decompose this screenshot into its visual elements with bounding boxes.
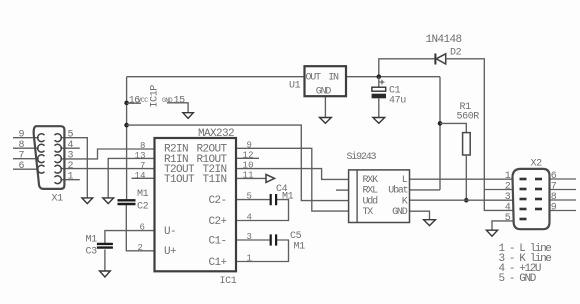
- ground G2: [103, 198, 114, 204]
- wire X1 pin9 stub: [13, 137, 39, 139]
- svg-text:9: 9: [19, 130, 25, 141]
- svg-text:TX: TX: [363, 207, 374, 218]
- svg-text:2: 2: [505, 181, 511, 192]
- svg-text:5 - GND: 5 - GND: [499, 273, 537, 285]
- capacitor C5 plates: [271, 234, 276, 245]
- svg-text:7: 7: [551, 181, 557, 192]
- svg-text:6: 6: [140, 223, 146, 233]
- svg-text:X2: X2: [531, 159, 543, 170]
- wire +5V to Si9243 Udd: [127, 125, 349, 201]
- wire diode anode to X2 pin4: [446, 59, 513, 211]
- wire R2OUT to Si9243 TX: [236, 148, 349, 211]
- node VCC pin16 junction: [124, 101, 129, 106]
- wire C5 to C1+ pin1: [236, 240, 289, 262]
- transceiver Si9243 box: [349, 170, 410, 223]
- wire X1 pin2 to T2OUT: [60, 168, 154, 170]
- svg-text:RXL: RXL: [363, 186, 379, 197]
- wire T2IN to Si9243 RXK: [236, 169, 349, 180]
- wire X1 pin7 stub: [13, 158, 39, 160]
- wire pin16 VCC stub: [127, 102, 141, 104]
- X2 pin2 dash: [520, 188, 527, 191]
- svg-text:4: 4: [505, 202, 511, 213]
- wire X1 pin8 stub: [13, 147, 39, 149]
- svg-text:M1: M1: [282, 192, 294, 203]
- svg-text:1: 1: [68, 172, 74, 183]
- wire C4 to C2+ pin4: [236, 200, 289, 221]
- svg-text:X1: X1: [52, 194, 64, 205]
- wire X1 pin1 stub: [60, 179, 80, 181]
- wire diode cathode to junction: [379, 59, 435, 77]
- wire C1- pin3 to C5: [236, 239, 270, 241]
- svg-text:C2+: C2+: [208, 216, 226, 228]
- X2 pin3 dash: [520, 198, 527, 201]
- wire R1OUT stub: [236, 157, 259, 159]
- wire RXL stub: [336, 189, 349, 191]
- svg-text:1: 1: [505, 171, 511, 182]
- svg-text:D2: D2: [450, 48, 462, 59]
- X2 pin9 dash: [535, 208, 542, 211]
- wire U1 GND pin: [324, 96, 326, 117]
- wire V- pin6 to C3: [105, 231, 155, 244]
- wire R1 top lead: [440, 123, 466, 132]
- svg-text:6: 6: [19, 161, 25, 172]
- svg-text:560R: 560R: [457, 112, 480, 123]
- X1 pin 5 arc: [55, 134, 62, 142]
- svg-text:47u: 47u: [389, 95, 406, 106]
- svg-text:6: 6: [551, 171, 557, 182]
- svg-text:C1-: C1-: [208, 235, 226, 247]
- X2 pin1 dash: [520, 178, 527, 181]
- svg-text:3: 3: [68, 151, 74, 162]
- svg-text:GND: GND: [392, 207, 408, 218]
- ground below Si9243: [424, 220, 436, 226]
- node rail junction y125: [124, 123, 129, 128]
- wire C1 top lead: [378, 77, 380, 87]
- svg-text:7: 7: [19, 151, 25, 162]
- connector X2 body: [513, 169, 550, 229]
- wire Si9243 GND: [410, 211, 430, 220]
- wire X2 pin9 stub: [549, 210, 576, 212]
- svg-text:C1+: C1+: [208, 257, 226, 269]
- svg-text:7: 7: [140, 161, 146, 171]
- X1 pin 8 arc: [38, 144, 45, 152]
- wire +12V U1 IN to x440: [346, 76, 440, 78]
- X1 pin 2 arc: [55, 165, 62, 173]
- wire C2 bottom to V+ pin2: [126, 205, 154, 251]
- svg-text:3: 3: [505, 192, 511, 203]
- svg-text:10: 10: [243, 161, 254, 171]
- diode D2 cathode bar: [434, 54, 436, 65]
- svg-text:IN: IN: [328, 72, 339, 83]
- svg-text:C5: C5: [290, 231, 302, 242]
- svg-text:Udd: Udd: [363, 195, 379, 207]
- svg-text:U-: U-: [164, 226, 176, 238]
- svg-text:T1OUT: T1OUT: [164, 174, 195, 186]
- wire Si9243 L to X2 pin1: [410, 178, 514, 180]
- svg-text:9: 9: [551, 202, 557, 213]
- svg-text:C2: C2: [137, 201, 149, 212]
- wire +5V vertical rail: [126, 77, 128, 200]
- wire C2- pin5 to C4: [236, 199, 270, 201]
- node C1 junction: [377, 74, 382, 79]
- resistor R1 body: [463, 133, 471, 155]
- wire X1 pin4 stub: [60, 147, 80, 149]
- X1 pin 3 arc: [55, 155, 62, 163]
- svg-text:1N4148: 1N4148: [426, 34, 462, 46]
- svg-text:OUT: OUT: [306, 72, 322, 83]
- svg-text:5: 5: [247, 192, 253, 202]
- wire +12V down to junction: [410, 77, 441, 190]
- svg-text:M1: M1: [294, 242, 306, 253]
- svg-text:9: 9: [247, 140, 253, 150]
- svg-text:RXK: RXK: [363, 175, 379, 186]
- svg-text:T1IN: T1IN: [202, 174, 226, 186]
- X2 pin7 dash: [535, 188, 542, 191]
- svg-text:M1: M1: [86, 235, 98, 246]
- connector X1 body: [34, 126, 65, 189]
- X1 pin 1 arc: [55, 176, 62, 184]
- wire +5V from U1 OUT to rail: [127, 76, 305, 78]
- ground IC1P GND pin: [183, 113, 193, 119]
- wire X2 pin2 stub: [484, 189, 513, 191]
- svg-text:GND: GND: [162, 97, 173, 104]
- svg-text:IC1: IC1: [220, 276, 237, 287]
- svg-text:3: 3: [247, 232, 253, 242]
- svg-text:Ubat: Ubat: [388, 185, 407, 197]
- wire R1 bottom lead: [465, 155, 467, 200]
- wire X2 pin7 stub: [549, 189, 576, 191]
- svg-text:U1: U1: [289, 80, 301, 91]
- wire Si9243 K to X2 pin3: [410, 199, 514, 201]
- svg-text:12: 12: [243, 150, 254, 160]
- svg-text:U+: U+: [164, 246, 176, 258]
- capacitor C3 plates: [97, 244, 113, 248]
- svg-text:11: 11: [243, 170, 254, 180]
- wire T1IN with arrow: [236, 177, 266, 179]
- wire X1 pin3 to R2IN: [60, 149, 154, 159]
- X2 pin5 dash: [520, 218, 527, 221]
- ground below C3: [100, 271, 111, 277]
- svg-text:14: 14: [135, 171, 146, 181]
- svg-text:MAX232: MAX232: [198, 128, 234, 140]
- svg-text:5: 5: [505, 213, 511, 224]
- wire X2 pin6 stub: [549, 178, 576, 180]
- ground below U1: [320, 118, 332, 124]
- X2 pin6 dash: [535, 178, 542, 181]
- ground below C1: [373, 118, 385, 124]
- svg-text:8: 8: [551, 192, 557, 203]
- wire X1 pin5 to ground: [60, 138, 87, 198]
- capacitor C4 plates: [271, 194, 276, 205]
- IC MAX232 (IC1) box: [155, 138, 237, 271]
- svg-text:13: 13: [135, 151, 146, 161]
- X1 pin 4 arc: [55, 144, 62, 152]
- ground below X2 pin5: [486, 230, 497, 236]
- X2 pin4 dash: [520, 208, 527, 211]
- arrow on T1IN wire: [266, 174, 275, 182]
- node R1/K junction: [464, 198, 469, 203]
- X2 pin8 dash: [535, 198, 542, 201]
- wire T1OUT stub: [132, 177, 155, 179]
- node +12V junction: [438, 121, 443, 126]
- svg-text:C3: C3: [86, 247, 98, 258]
- svg-text:4: 4: [68, 140, 74, 151]
- capacitor C1 top plate: [372, 87, 386, 91]
- svg-text:1: 1: [247, 254, 253, 264]
- voltage regulator U1 box: [305, 66, 347, 96]
- svg-text:8: 8: [19, 140, 25, 151]
- capacitor C1 plus sign: [380, 80, 385, 85]
- wire X1 pin6 stub: [13, 168, 39, 170]
- wire C3 bottom to ground: [104, 250, 106, 272]
- svg-text:4: 4: [247, 213, 253, 223]
- svg-text:IC1P: IC1P: [150, 85, 161, 108]
- svg-text:C2-: C2-: [208, 195, 226, 207]
- svg-text:2: 2: [68, 161, 74, 172]
- X1 pin 7 arc: [38, 155, 45, 163]
- X1 pin 9 arc: [38, 134, 45, 142]
- ground G1: [82, 198, 93, 204]
- wire R1IN to ground G2: [108, 158, 154, 198]
- capacitor C1 bottom plate: [372, 94, 386, 99]
- X1 pin 6 arc: [38, 165, 45, 173]
- wire X2 pin8 stub: [549, 199, 576, 201]
- svg-text:2: 2: [138, 243, 144, 253]
- svg-text:VCC: VCC: [138, 97, 149, 104]
- wire GND15 stub: [167, 103, 188, 113]
- Si9243 inner divider: [356, 170, 358, 223]
- svg-text:5: 5: [68, 130, 74, 141]
- svg-text:8: 8: [140, 141, 146, 151]
- svg-text:GND: GND: [316, 86, 332, 97]
- svg-text:M1: M1: [137, 189, 149, 200]
- wire X2 pin5 to ground: [492, 221, 513, 230]
- capacitor C2 plates: [118, 200, 136, 204]
- svg-text:Si9243: Si9243: [347, 151, 377, 163]
- wire C1 bottom lead: [378, 98, 380, 117]
- diode D2 triangle: [436, 54, 446, 64]
- svg-text:15: 15: [174, 95, 186, 106]
